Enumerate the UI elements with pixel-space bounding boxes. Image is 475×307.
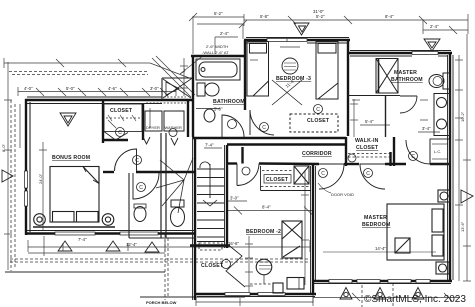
svg-text:16'-6": 16'-6": [228, 241, 239, 246]
svg-text:2'-4": 2'-4": [220, 31, 229, 36]
svg-text:8'-4": 8'-4": [385, 14, 394, 19]
svg-text:CLOSET: CLOSET: [201, 263, 224, 269]
svg-text:MASTER: MASTER: [364, 215, 387, 221]
svg-text:8'-4": 8'-4": [262, 205, 271, 210]
svg-text:5'-4": 5'-4": [365, 119, 374, 124]
svg-text:-WALL 2'-6" AT: -WALL 2'-6" AT: [202, 50, 229, 55]
svg-text:WALK-IN: WALK-IN: [355, 138, 379, 144]
svg-text:C: C: [321, 171, 325, 177]
svg-text:24'-0": 24'-0": [38, 173, 43, 184]
svg-text:CLOSET: CLOSET: [110, 108, 133, 114]
svg-text:4'-6": 4'-6": [108, 86, 117, 91]
svg-text:PORCH BELOW: PORCH BELOW: [146, 300, 177, 305]
svg-text:C: C: [135, 158, 139, 164]
svg-text:BATHROOM: BATHROOM: [213, 99, 245, 105]
svg-text:WASHER: WASHER: [165, 125, 183, 130]
svg-text:C: C: [411, 154, 415, 160]
svg-text:C: C: [262, 125, 266, 131]
svg-text:BATHROOM: BATHROOM: [391, 77, 423, 83]
svg-text:C: C: [139, 185, 143, 191]
svg-text:C: C: [366, 171, 370, 177]
svg-text:5'-2": 5'-2": [214, 11, 223, 16]
svg-text:4'-0": 4'-0": [24, 86, 33, 91]
svg-text:©SmartMLS, Inc. 2023: ©SmartMLS, Inc. 2023: [364, 293, 466, 305]
svg-text:2'-6" WIDTH: 2'-6" WIDTH: [206, 44, 228, 49]
svg-text:8'-0": 8'-0": [1, 143, 6, 152]
svg-text:5'-8": 5'-8": [260, 14, 269, 19]
svg-text:BONUS ROOM: BONUS ROOM: [52, 155, 90, 161]
svg-text:DOOR VOID: DOOR VOID: [331, 192, 354, 197]
svg-text:3'-4": 3'-4": [422, 126, 431, 131]
svg-text:BEDROOM -2: BEDROOM -2: [246, 229, 281, 235]
svg-text:3'-0": 3'-0": [230, 196, 239, 201]
svg-text:CORRIDOR: CORRIDOR: [302, 151, 332, 157]
svg-text:C: C: [118, 130, 122, 136]
svg-text:10'-2": 10'-2": [460, 111, 465, 122]
svg-text:CLOSET: CLOSET: [356, 145, 379, 151]
svg-text:5'-2": 5'-2": [316, 14, 325, 19]
svg-text:MASTER: MASTER: [394, 70, 417, 76]
svg-text:DRYER: DRYER: [146, 125, 160, 130]
svg-text:14'-4": 14'-4": [375, 246, 386, 251]
svg-text:12'-4": 12'-4": [126, 242, 137, 247]
svg-text:BEDROOM: BEDROOM: [362, 222, 391, 228]
svg-text:CLOSET: CLOSET: [266, 177, 289, 183]
svg-text:3'-0": 3'-0": [150, 86, 159, 91]
svg-text:2'-4": 2'-4": [430, 24, 439, 29]
svg-text:C: C: [316, 107, 320, 113]
svg-text:7'-4": 7'-4": [78, 237, 87, 242]
svg-text:5'-0": 5'-0": [66, 86, 75, 91]
svg-text:CLOSET: CLOSET: [307, 118, 330, 124]
svg-text:13'-6": 13'-6": [460, 221, 465, 232]
svg-text:7'-4": 7'-4": [205, 143, 214, 148]
svg-text:5'-0": 5'-0": [214, 107, 223, 112]
svg-text:L.C.: L.C.: [434, 149, 441, 154]
